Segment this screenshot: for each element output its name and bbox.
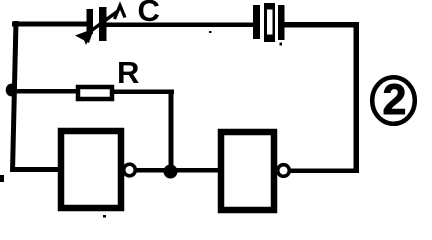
- label R: [117, 55, 139, 90]
- inverter U2: [221, 132, 289, 210]
- node junction middle: [164, 165, 178, 179]
- inverter U1: [61, 131, 135, 208]
- ink speck on top wire: [209, 31, 212, 33]
- capacitor C (variable, plates): [87, 7, 107, 41]
- wire left vertical: [10, 21, 19, 172]
- wire top-left horizontal: [12, 22, 90, 27]
- wire junction to resistor: [11, 89, 77, 94]
- ink speck below inverter U1: [103, 215, 106, 218]
- wire U2 output to right vertical: [290, 169, 359, 174]
- wire right vertical: [354, 22, 360, 172]
- svg-text:R: R: [117, 55, 139, 90]
- variable capacitor arrow: [75, 6, 125, 46]
- ink speck below crystal: [280, 43, 283, 46]
- wire resistor to bend: [114, 90, 174, 95]
- label 2 (circled figure number): [372, 76, 415, 124]
- wire crystal to top-right corner: [284, 22, 359, 28]
- svg-text:2: 2: [383, 76, 407, 124]
- node junction left: [6, 84, 17, 97]
- label C: [138, 0, 160, 28]
- crystal X1: [253, 3, 285, 42]
- left edge ink mark: [0, 175, 4, 182]
- wire vertical down to middle junction: [169, 90, 174, 172]
- wire junction to U2 input: [176, 168, 218, 173]
- wire U1 output to junction: [136, 168, 166, 173]
- wire capacitor to crystal: [106, 23, 254, 28]
- resistor R: [78, 87, 112, 99]
- wire left vertical to gate input: [11, 167, 59, 172]
